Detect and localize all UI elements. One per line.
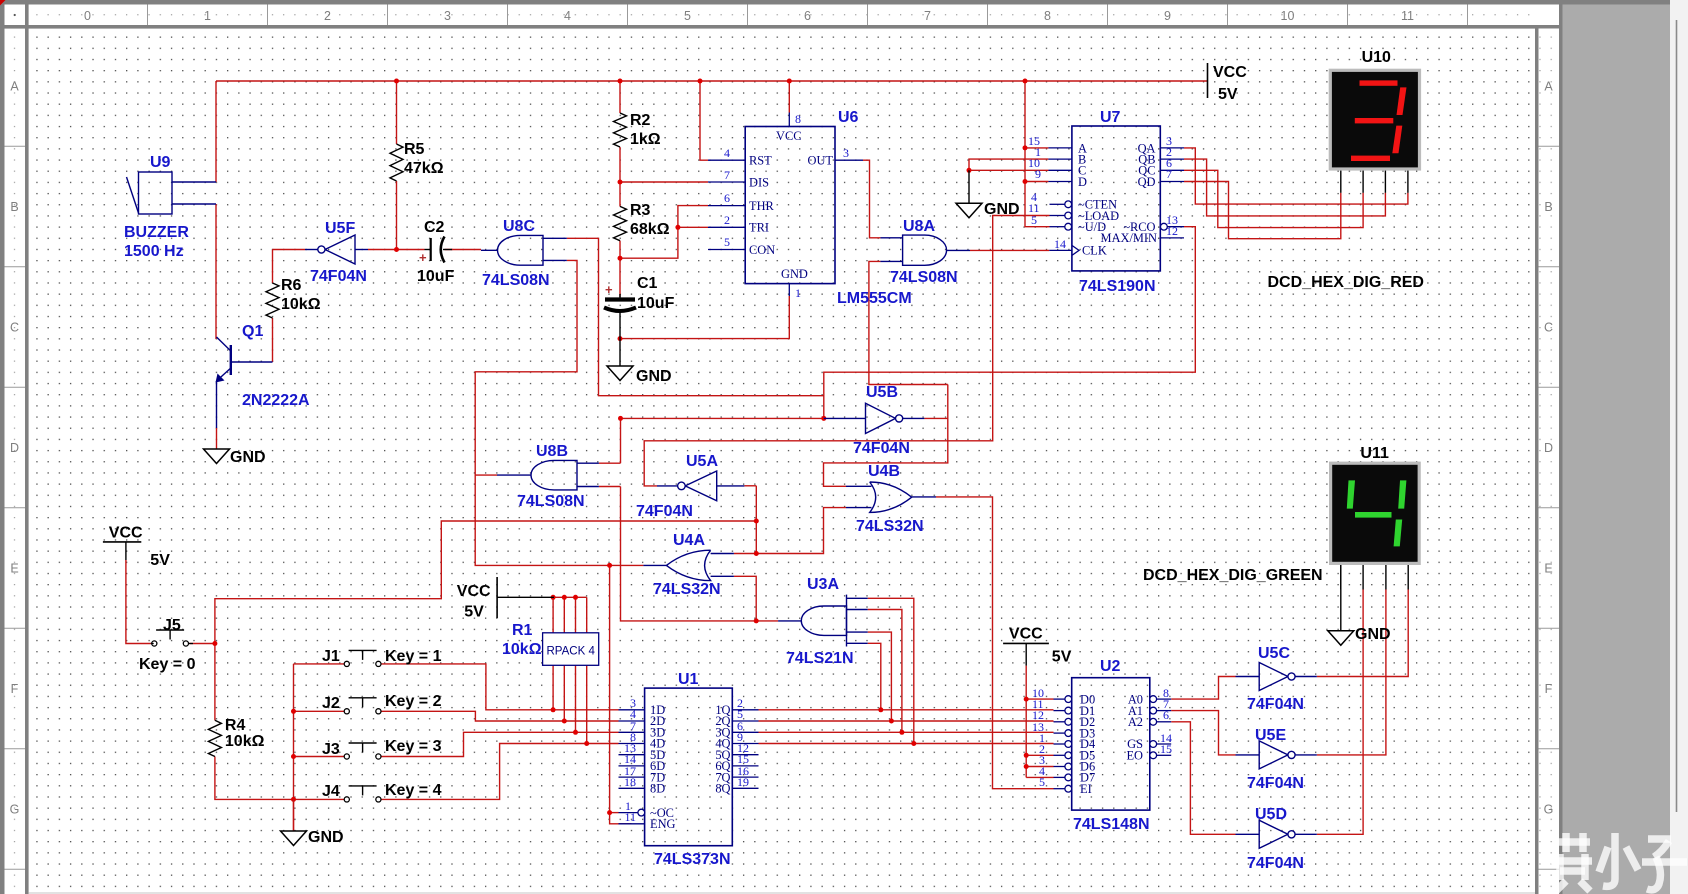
svg-text:E: E xyxy=(10,562,18,576)
origin red mark xyxy=(0,0,6,6)
IC U1 74LS373N box xyxy=(645,688,733,846)
svg-text:10kΩ: 10kΩ xyxy=(281,296,321,313)
svg-text:A: A xyxy=(1544,80,1553,94)
resistor R6 xyxy=(266,283,279,318)
svg-text:U5D: U5D xyxy=(1255,806,1287,823)
7-segment display U11 (green, showing 4) xyxy=(1329,462,1421,565)
svg-text:U9: U9 xyxy=(150,154,171,171)
svg-text:A2: A2 xyxy=(1128,715,1143,729)
IC U2 74LS148N box xyxy=(1072,678,1150,810)
svg-text:A: A xyxy=(10,80,19,94)
svg-text:2: 2 xyxy=(324,9,331,23)
svg-text:D: D xyxy=(1544,441,1553,455)
svg-text:2: 2 xyxy=(724,213,730,227)
left ruler letters xyxy=(5,145,26,147)
capacitor C2 xyxy=(425,249,431,251)
svg-text:2N2222A: 2N2222A xyxy=(242,392,310,409)
svg-text:B: B xyxy=(1544,200,1552,214)
svg-text:CLK: CLK xyxy=(1082,244,1107,258)
svg-text:U5C: U5C xyxy=(1258,645,1290,662)
resistor R4 xyxy=(208,720,221,756)
svg-text:4: 4 xyxy=(564,9,571,23)
AND gate U8C (mirrored) xyxy=(497,235,543,265)
svg-text:15: 15 xyxy=(1160,742,1172,756)
svg-text:Key = 3: Key = 3 xyxy=(385,738,442,755)
svg-text:U4A: U4A xyxy=(673,532,705,549)
svg-text:5V: 5V xyxy=(1052,649,1072,666)
svg-text:GND: GND xyxy=(308,829,344,846)
svg-text:8: 8 xyxy=(1044,9,1051,23)
svg-text:DCD_HEX_DIG_RED: DCD_HEX_DIG_RED xyxy=(1268,274,1424,291)
svg-text:U11: U11 xyxy=(1360,445,1389,462)
svg-text:74LS08N: 74LS08N xyxy=(890,269,958,286)
AND gate U8B (mirrored) xyxy=(531,460,577,490)
ruler separator lines xyxy=(0,25,1562,29)
svg-text:C1: C1 xyxy=(637,275,658,292)
VCC symbol above U2 xyxy=(1003,642,1049,644)
scrollbar strip xyxy=(1670,0,1688,894)
svg-text:F: F xyxy=(1545,682,1553,696)
svg-text:C: C xyxy=(1544,321,1553,335)
svg-text:74LS190N: 74LS190N xyxy=(1079,278,1156,295)
switch J2 xyxy=(344,709,349,714)
right ruler band xyxy=(1539,29,1560,894)
svg-text:4: 4 xyxy=(724,146,730,160)
svg-text:TRI: TRI xyxy=(749,221,769,235)
svg-text:1500 Hz: 1500 Hz xyxy=(124,243,184,260)
svg-text:10uF: 10uF xyxy=(417,268,455,285)
svg-text:7: 7 xyxy=(924,9,931,23)
svg-text:C2: C2 xyxy=(424,219,445,236)
svg-text:E: E xyxy=(1544,562,1552,576)
svg-text:R4: R4 xyxy=(225,717,246,734)
svg-text:74F04N: 74F04N xyxy=(853,440,910,457)
svg-text:74LS148N: 74LS148N xyxy=(1073,816,1150,833)
right inner border xyxy=(1535,25,1539,894)
svg-text:G: G xyxy=(10,803,20,817)
svg-text:74F04N: 74F04N xyxy=(1247,775,1304,792)
VCC symbol at J5 xyxy=(103,541,141,543)
inverter U5E xyxy=(1259,741,1288,769)
svg-text:U5B: U5B xyxy=(866,384,898,401)
svg-text:5: 5 xyxy=(1031,213,1037,227)
VCC symbol top right xyxy=(1207,63,1209,98)
svg-text:U1: U1 xyxy=(678,671,699,688)
switch J3 xyxy=(344,754,349,759)
svg-text:11: 11 xyxy=(624,810,636,824)
7-segment display U10 (red, showing 3) xyxy=(1329,69,1421,171)
svg-text:QD: QD xyxy=(1138,175,1156,189)
svg-text:G: G xyxy=(1544,803,1554,817)
svg-text:U7: U7 xyxy=(1100,109,1121,126)
svg-text:6: 6 xyxy=(1163,708,1169,722)
svg-text:74F04N: 74F04N xyxy=(310,268,367,285)
svg-text:J1: J1 xyxy=(322,648,340,665)
svg-text:OUT: OUT xyxy=(808,154,834,168)
svg-text:R3: R3 xyxy=(630,202,651,219)
svg-text:U2: U2 xyxy=(1100,658,1121,675)
svg-text:U8C: U8C xyxy=(503,218,535,235)
svg-text:10uF: 10uF xyxy=(637,295,675,312)
svg-text:D: D xyxy=(1078,175,1087,189)
svg-text:19: 19 xyxy=(737,775,749,789)
svg-text:5V: 5V xyxy=(150,552,170,569)
svg-text:7: 7 xyxy=(1166,167,1172,181)
svg-text:VCC: VCC xyxy=(776,129,801,143)
switch J1 xyxy=(344,661,349,666)
svg-text:1kΩ: 1kΩ xyxy=(630,131,661,148)
svg-text:GND: GND xyxy=(984,201,1020,218)
junction dots xyxy=(394,79,399,84)
svg-text:R1: R1 xyxy=(512,622,533,639)
svg-text:RST: RST xyxy=(749,154,772,168)
svg-text:3: 3 xyxy=(843,146,849,160)
svg-text:D: D xyxy=(10,441,19,455)
svg-text:6: 6 xyxy=(804,9,811,23)
svg-text:12: 12 xyxy=(1166,224,1178,238)
svg-text:GND: GND xyxy=(230,449,266,466)
top ruler band xyxy=(29,5,1536,26)
svg-text:GND: GND xyxy=(636,368,672,385)
switch J4 xyxy=(344,797,349,802)
op IC U6 LM555CM box xyxy=(745,127,835,284)
inverter U5D xyxy=(1259,820,1288,848)
right outer border xyxy=(1559,5,1563,894)
svg-text:9: 9 xyxy=(1164,9,1171,23)
svg-text:LM555CM: LM555CM xyxy=(837,290,912,307)
svg-text:GND: GND xyxy=(781,267,808,281)
svg-text:9: 9 xyxy=(1035,167,1041,181)
svg-text:74LS32N: 74LS32N xyxy=(856,518,924,535)
OR gate U4B xyxy=(870,482,912,512)
ground below C1 xyxy=(607,366,633,381)
svg-text:1: 1 xyxy=(795,286,801,300)
svg-text:1: 1 xyxy=(204,9,211,23)
switch J5 xyxy=(152,641,157,646)
ground below U11 display xyxy=(1328,631,1354,646)
svg-text:VCC: VCC xyxy=(457,583,491,600)
top window border strip xyxy=(0,0,1672,5)
gray side panel xyxy=(1563,5,1671,894)
svg-text:J2: J2 xyxy=(322,695,340,712)
svg-text:B: B xyxy=(10,200,18,214)
svg-text:10: 10 xyxy=(1281,9,1295,23)
svg-text:8Q: 8Q xyxy=(715,782,730,796)
svg-text:8D: 8D xyxy=(650,782,665,796)
svg-text:7: 7 xyxy=(724,168,730,182)
svg-text:RPACK 4: RPACK 4 xyxy=(547,646,596,658)
bottom edge line xyxy=(29,892,1536,894)
svg-text:VCC: VCC xyxy=(109,525,143,542)
svg-text:74F04N: 74F04N xyxy=(636,503,693,520)
svg-text:VCC: VCC xyxy=(1213,64,1247,81)
svg-text:10kΩ: 10kΩ xyxy=(502,641,542,658)
svg-text:GND: GND xyxy=(1355,626,1391,643)
svg-text:+: + xyxy=(605,282,613,297)
transistor Q1 xyxy=(230,345,232,375)
buzzer U9 xyxy=(139,172,173,214)
svg-text:BUZZER: BUZZER xyxy=(124,224,189,241)
svg-text:J3: J3 xyxy=(322,741,340,758)
left window border strip xyxy=(0,5,5,894)
AND gate U8A xyxy=(903,235,947,265)
svg-text:R2: R2 xyxy=(630,112,651,129)
svg-text:U8A: U8A xyxy=(903,218,935,235)
svg-text:ENG: ENG xyxy=(650,817,676,831)
svg-text:47kΩ: 47kΩ xyxy=(404,160,444,177)
svg-text:74LS373N: 74LS373N xyxy=(654,851,731,868)
OR gate U4A (mirrored) xyxy=(666,550,710,580)
svg-text:F: F xyxy=(11,682,19,696)
svg-text:U5E: U5E xyxy=(1255,727,1286,744)
svg-text:Key = 2: Key = 2 xyxy=(385,693,442,710)
svg-text:3: 3 xyxy=(444,9,451,23)
inverter U5A xyxy=(685,471,717,501)
svg-text:U5A: U5A xyxy=(686,453,718,470)
svg-text:+: + xyxy=(419,250,427,265)
capacitor C1 xyxy=(619,294,621,298)
inverter U5F xyxy=(325,235,355,264)
svg-text:EI: EI xyxy=(1080,782,1092,796)
svg-text:U8B: U8B xyxy=(536,443,568,460)
resistor R3 xyxy=(614,206,627,240)
svg-text:5: 5 xyxy=(724,235,730,249)
ground at U7 B/C xyxy=(956,203,982,218)
IC U7 74LS190N box xyxy=(1072,126,1160,271)
resistor R5 xyxy=(390,144,403,181)
svg-text:74LS21N: 74LS21N xyxy=(786,650,854,667)
VCC symbol at R1 xyxy=(496,577,498,618)
svg-text:74LS08N: 74LS08N xyxy=(482,272,550,289)
left ruler band xyxy=(5,29,26,894)
ruler corner box xyxy=(5,5,26,26)
svg-text:EO: EO xyxy=(1126,749,1143,763)
svg-text:U10: U10 xyxy=(1362,49,1391,66)
svg-text:U4B: U4B xyxy=(868,463,900,480)
svg-text:74F04N: 74F04N xyxy=(1247,855,1304,872)
svg-text:14: 14 xyxy=(1054,237,1066,251)
svg-text:10kΩ: 10kΩ xyxy=(225,733,265,750)
svg-text:5: 5 xyxy=(1039,775,1045,789)
svg-text:DCD_HEX_DIG_GREEN: DCD_HEX_DIG_GREEN xyxy=(1143,567,1323,584)
svg-text:R6: R6 xyxy=(281,277,302,294)
svg-text:U3A: U3A xyxy=(807,576,839,593)
top ruler numbers xyxy=(147,5,149,26)
svg-text:Key = 0: Key = 0 xyxy=(139,656,196,673)
svg-text:68kΩ: 68kΩ xyxy=(630,221,670,238)
resistor R2 xyxy=(614,113,627,147)
svg-text:5: 5 xyxy=(684,9,691,23)
svg-text:6: 6 xyxy=(724,191,730,205)
svg-text:CON: CON xyxy=(749,243,775,257)
svg-text:11: 11 xyxy=(1401,9,1414,23)
resistor pack R1 box xyxy=(552,633,554,666)
inverter U5B xyxy=(866,403,896,433)
svg-text:J4: J4 xyxy=(322,783,340,800)
svg-text:J5: J5 xyxy=(163,617,181,634)
svg-text:Q1: Q1 xyxy=(242,323,263,340)
svg-text:U5F: U5F xyxy=(325,220,355,237)
svg-text:0: 0 xyxy=(84,9,91,23)
AND4 gate U3A (mirrored) xyxy=(846,595,848,647)
svg-text:5V: 5V xyxy=(1218,86,1238,103)
svg-text:MAX/MIN: MAX/MIN xyxy=(1101,231,1157,245)
svg-text:18: 18 xyxy=(624,775,636,789)
svg-text:74LS32N: 74LS32N xyxy=(653,581,721,598)
svg-text:VCC: VCC xyxy=(1009,626,1043,643)
wire: U5D output to display pin2 xyxy=(216,80,1208,82)
svg-text:74LS08N: 74LS08N xyxy=(517,493,585,510)
svg-text:R5: R5 xyxy=(404,141,425,158)
watermark strokes (CJK-like) xyxy=(1551,833,1592,891)
svg-text:Key = 4: Key = 4 xyxy=(385,782,442,799)
svg-text:5V: 5V xyxy=(464,604,484,621)
svg-text:U6: U6 xyxy=(838,109,859,126)
svg-text:DIS: DIS xyxy=(749,175,769,189)
inverter U5C xyxy=(1259,663,1288,691)
svg-text:Key = 1: Key = 1 xyxy=(385,648,442,665)
ground below Q1 xyxy=(204,449,230,464)
svg-text:8: 8 xyxy=(795,112,801,126)
svg-text:74F04N: 74F04N xyxy=(1247,696,1304,713)
ground in key ladder xyxy=(293,799,295,831)
svg-text:C: C xyxy=(10,321,19,335)
svg-text:THR: THR xyxy=(749,199,775,213)
